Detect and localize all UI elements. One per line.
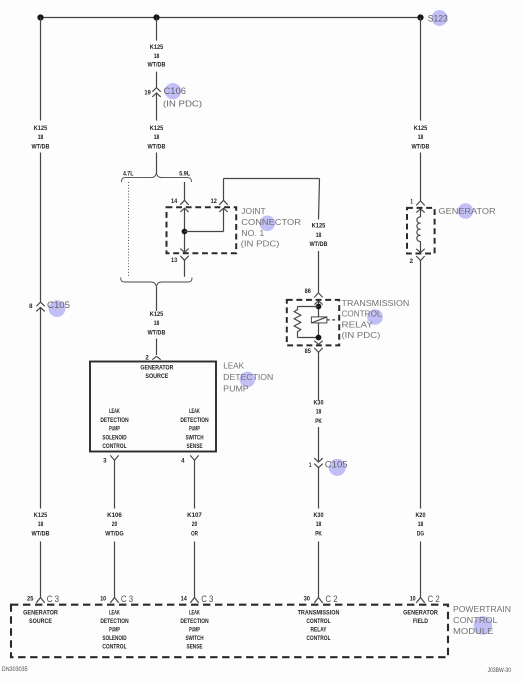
svg-text:PUMP: PUMP — [109, 628, 120, 634]
wire pin 4 down — [194, 460, 196, 508]
svg-text:CONNECTOR: CONNECTOR — [241, 217, 301, 227]
resistor relay coil suppression — [294, 307, 301, 338]
svg-text:SOURCE: SOURCE — [145, 374, 168, 380]
svg-text:(IN PDC): (IN PDC) — [342, 330, 381, 340]
svg-text:K125: K125 — [312, 223, 326, 229]
svg-text:14: 14 — [171, 199, 178, 205]
wire to PCM pin 10 C2 — [420, 542, 422, 598]
wire left upper — [40, 18, 42, 121]
relay pin 86 symbol — [314, 293, 322, 298]
wire pin 3 to PCM — [114, 542, 116, 598]
pin 2 symbol — [152, 356, 160, 359]
svg-text:18: 18 — [154, 321, 160, 327]
wire pin 13 to brace — [184, 260, 186, 277]
brace engine merge bottom — [121, 278, 192, 287]
svg-text:SOLENOID: SOLENOID — [102, 435, 127, 441]
svg-text:LEAK: LEAK — [223, 360, 244, 370]
svg-text:CONTROL: CONTROL — [453, 615, 498, 625]
pin 14 symbol — [180, 200, 188, 205]
svg-text:WT/DB: WT/DB — [148, 331, 167, 337]
svg-text:WT/DB: WT/DB — [310, 242, 329, 248]
svg-text:FIELD: FIELD — [413, 619, 429, 625]
wire 5.9L branch to pin 14 — [184, 182, 186, 201]
wire left middle — [40, 153, 42, 303]
wire pin 12 riser above box — [223, 179, 225, 201]
svg-text:5.9L: 5.9L — [179, 171, 190, 177]
wire generator internal top — [420, 209, 422, 217]
svg-text:NO. 1: NO. 1 — [241, 228, 264, 238]
wire to relay pin 86 — [318, 251, 320, 293]
svg-text:SENSE: SENSE — [187, 645, 203, 651]
svg-text:K106: K106 — [107, 513, 122, 519]
svg-text:DG: DG — [417, 531, 424, 537]
svg-text:RELAY: RELAY — [342, 319, 374, 329]
svg-text:PK: PK — [315, 419, 322, 425]
pin 13 symbol — [180, 249, 188, 253]
svg-text:K30: K30 — [314, 401, 325, 407]
svg-text:C 2: C 2 — [325, 594, 337, 605]
wire inside joint connector riser — [223, 208, 225, 231]
svg-text:RELAY: RELAY — [311, 628, 327, 634]
svg-text:DETECTION: DETECTION — [180, 619, 208, 625]
transmission control relay box — [287, 300, 339, 346]
svg-text:C 3: C 3 — [121, 594, 133, 605]
wire top rail — [41, 17, 421, 19]
relay coil lead to box edge — [327, 319, 338, 321]
svg-text:PUMP: PUMP — [189, 427, 200, 433]
connector C106 symbol — [152, 88, 160, 92]
svg-text:C105: C105 — [47, 300, 70, 310]
svg-text:GENERATOR: GENERATOR — [403, 610, 438, 616]
svg-text:18: 18 — [316, 522, 322, 528]
svg-text:13: 13 — [171, 258, 178, 264]
svg-text:CONTROL: CONTROL — [342, 309, 382, 319]
svg-text:19: 19 — [144, 90, 151, 96]
PCM pin 10 C2 symbol — [416, 598, 424, 603]
svg-text:DETECTION: DETECTION — [180, 418, 208, 424]
svg-text:C106: C106 — [164, 86, 187, 96]
pin 4 symbol — [190, 455, 198, 460]
svg-text:TRANSMISSION: TRANSMISSION — [342, 298, 410, 308]
svg-text:GENERATOR: GENERATOR — [23, 610, 58, 616]
generator pin 2 symbol — [416, 249, 424, 253]
svg-text:C105: C105 — [325, 459, 348, 469]
svg-text:WT/DG: WT/DG — [105, 531, 124, 537]
PCM pin 14 C3 symbol — [190, 598, 198, 603]
pin 12 symbol — [219, 200, 227, 205]
svg-text:25: 25 — [27, 597, 34, 603]
wire to C105 — [318, 427, 320, 462]
svg-text:K125: K125 — [150, 126, 164, 132]
svg-text:K30: K30 — [314, 513, 325, 519]
wire mid above C106 — [156, 72, 158, 88]
wire pin 4 to PCM — [194, 542, 196, 598]
wire to PCM pin 30 — [318, 542, 320, 598]
wire inside joint connector vertical — [184, 208, 186, 252]
wire relay internal top — [318, 301, 320, 317]
svg-text:TRANSMISSION: TRANSMISSION — [298, 610, 340, 616]
svg-text:J03BW-30: J03BW-30 — [488, 668, 512, 674]
svg-text:LEAK: LEAK — [109, 409, 120, 415]
svg-text:DETECTION: DETECTION — [223, 372, 273, 382]
svg-text:PUMP: PUMP — [109, 427, 120, 433]
svg-text:PUMP: PUMP — [223, 384, 249, 394]
pin 3 symbol — [110, 455, 118, 460]
junction dot relay bottom — [316, 335, 322, 341]
highlight marks (annotation circles) — [165, 83, 181, 99]
svg-text:DN303035: DN303035 — [2, 667, 28, 673]
svg-text:OR: OR — [191, 531, 199, 537]
svg-text:C 2: C 2 — [428, 594, 440, 605]
svg-text:SWITCH: SWITCH — [186, 435, 204, 441]
wire mid upper — [156, 18, 158, 41]
relay pin 85 symbol — [314, 341, 322, 345]
PCM pin 10 C3 symbol — [110, 598, 118, 603]
svg-text:10: 10 — [100, 597, 107, 603]
wire left to PCM — [40, 542, 42, 598]
svg-text:WT/DB: WT/DB — [148, 144, 167, 150]
svg-text:SOLENOID: SOLENOID — [102, 636, 127, 642]
svg-text:20: 20 — [192, 522, 198, 528]
svg-text:K125: K125 — [414, 126, 428, 132]
svg-text:18: 18 — [316, 233, 322, 239]
svg-text:LEAK: LEAK — [109, 610, 120, 616]
svg-text:C 3: C 3 — [201, 594, 213, 605]
svg-text:K125: K125 — [34, 126, 48, 132]
generator field coil — [417, 217, 421, 242]
svg-text:DETECTION: DETECTION — [100, 418, 128, 424]
wire resistor bottom to junction — [298, 337, 319, 339]
svg-text:JOINT: JOINT — [241, 206, 265, 216]
wire relay internal bottom — [318, 323, 320, 338]
junction dot middle — [153, 14, 159, 20]
svg-text:18: 18 — [38, 135, 44, 141]
junction dot left — [37, 14, 43, 20]
svg-text:CONTROL: CONTROL — [306, 619, 330, 625]
wire 4.7L dotted branch — [128, 182, 130, 277]
svg-text:10: 10 — [410, 597, 417, 603]
svg-text:CONTROL: CONTROL — [306, 636, 330, 642]
svg-text:18: 18 — [38, 522, 44, 528]
svg-text:CONTROL: CONTROL — [102, 444, 126, 450]
PCM pin 25 symbol — [36, 598, 44, 603]
relay coil diagonal — [311, 317, 327, 323]
svg-text:GENERATOR: GENERATOR — [439, 206, 496, 216]
svg-text:K125: K125 — [150, 45, 164, 51]
svg-text:(IN PDC): (IN PDC) — [163, 98, 202, 108]
powertrain control module box — [11, 605, 448, 658]
wire relay column upper — [319, 179, 320, 220]
leak detection pump box — [90, 362, 216, 452]
svg-text:12: 12 — [211, 199, 218, 205]
svg-text:DETECTION: DETECTION — [100, 619, 128, 625]
svg-text:PK: PK — [315, 531, 322, 537]
wire mid to pump — [156, 339, 158, 356]
wire mid below C106 — [156, 93, 158, 121]
svg-text:14: 14 — [181, 597, 188, 603]
wire inside joint connector horizontal — [185, 231, 224, 233]
svg-text:POWERTRAIN: POWERTRAIN — [453, 604, 511, 614]
wire generator down — [420, 261, 422, 509]
svg-text:WT/DB: WT/DB — [32, 144, 51, 150]
generator box — [407, 208, 435, 254]
generator pin 1 symbol — [416, 201, 424, 206]
svg-text:C 3: C 3 — [47, 594, 59, 605]
joint connector no.1 box — [167, 207, 237, 253]
wire right upper — [420, 18, 422, 121]
svg-text:WT/DB: WT/DB — [148, 62, 167, 68]
svg-text:GENERATOR: GENERATOR — [140, 366, 174, 372]
relay coil — [311, 317, 327, 323]
svg-text:LEAK: LEAK — [189, 409, 200, 415]
PCM pin 30 C2 symbol — [314, 598, 322, 603]
svg-text:18: 18 — [154, 135, 160, 141]
svg-text:WT/DB: WT/DB — [32, 531, 51, 537]
svg-text:86: 86 — [305, 289, 312, 295]
svg-text:K107: K107 — [187, 513, 202, 519]
svg-text:SWITCH: SWITCH — [186, 636, 204, 642]
wire left lower — [40, 307, 42, 508]
svg-text:SENSE: SENSE — [187, 444, 203, 450]
wire mid to brace — [156, 153, 158, 174]
wire below C105 — [318, 468, 320, 509]
svg-text:85: 85 — [305, 349, 312, 355]
svg-text:WT/DB: WT/DB — [412, 144, 431, 150]
wire generator internal bottom — [420, 241, 422, 252]
wire horizontal to relay column — [224, 178, 320, 180]
svg-text:20: 20 — [112, 522, 118, 528]
svg-text:PUMP: PUMP — [189, 628, 200, 634]
svg-text:MODULE: MODULE — [453, 626, 494, 636]
svg-text:18: 18 — [418, 135, 424, 141]
brace engine split top — [122, 173, 192, 182]
svg-text:K125: K125 — [150, 312, 164, 318]
svg-text:K20: K20 — [416, 513, 427, 519]
svg-text:LEAK: LEAK — [189, 610, 200, 616]
connector C105 right symbol — [314, 458, 322, 462]
svg-text:K125: K125 — [34, 513, 48, 519]
wire pin 3 down — [114, 460, 116, 508]
svg-text:SOURCE: SOURCE — [29, 619, 52, 625]
wire relay to resistor top — [298, 306, 319, 308]
connector C105 left symbol — [36, 302, 44, 306]
svg-text:(IN PDC): (IN PDC) — [241, 239, 280, 249]
wire right to generator — [420, 153, 422, 201]
wire mid below brace — [156, 287, 158, 311]
svg-text:4.7L: 4.7L — [123, 171, 134, 177]
splice S123 dot — [417, 14, 423, 20]
svg-text:18: 18 — [418, 522, 424, 528]
svg-text:S123: S123 — [428, 13, 448, 23]
wire relay pin 85 down — [318, 352, 320, 400]
svg-text:18: 18 — [154, 54, 160, 60]
svg-text:18: 18 — [316, 410, 322, 416]
junction dot relay top — [316, 304, 322, 310]
svg-text:CONTROL: CONTROL — [102, 645, 126, 651]
junction dot joint connector — [182, 229, 188, 235]
svg-text:30: 30 — [304, 596, 311, 602]
